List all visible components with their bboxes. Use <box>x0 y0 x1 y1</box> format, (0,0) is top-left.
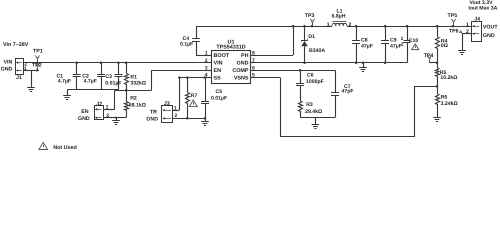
svg-text:VSNS: VSNS <box>234 76 249 82</box>
svg-text:3.24kΩ: 3.24kΩ <box>441 101 458 107</box>
svg-text:EN: EN <box>214 68 222 74</box>
svg-text:C5: C5 <box>216 89 223 95</box>
svg-text:BOOT: BOOT <box>214 53 230 59</box>
svg-text:1: 1 <box>24 66 27 72</box>
svg-text:C3: C3 <box>105 74 112 80</box>
svg-text:EN: EN <box>81 109 89 115</box>
svg-text:GND: GND <box>78 116 90 122</box>
svg-text:J1: J1 <box>16 75 22 81</box>
svg-text:5: 5 <box>252 73 255 79</box>
svg-text:47µF: 47µF <box>361 43 373 49</box>
svg-text:GND: GND <box>237 61 249 67</box>
svg-text:SS: SS <box>214 76 222 82</box>
svg-text:TP4: TP4 <box>424 53 434 59</box>
svg-text:4.7µF: 4.7µF <box>58 78 71 84</box>
svg-text:R6: R6 <box>441 95 448 101</box>
svg-text:TPS54331D: TPS54331D <box>216 45 245 51</box>
svg-text:TP5: TP5 <box>448 13 458 19</box>
svg-text:VOUT: VOUT <box>483 24 498 30</box>
svg-text:6.8µH: 6.8µH <box>332 13 346 19</box>
svg-text:D1: D1 <box>308 34 315 40</box>
svg-text:R3: R3 <box>306 102 313 108</box>
svg-text:VIN: VIN <box>4 59 13 65</box>
svg-text:1: 1 <box>327 22 330 28</box>
svg-text:TP3: TP3 <box>305 13 315 19</box>
svg-text:4.7µF: 4.7µF <box>84 78 97 84</box>
svg-text:4: 4 <box>205 73 208 79</box>
svg-text:Iout Max 3A: Iout Max 3A <box>468 5 497 11</box>
svg-text:332kΩ: 332kΩ <box>130 81 146 87</box>
svg-text:0.01µF: 0.01µF <box>211 96 227 102</box>
svg-text:TP1: TP1 <box>33 49 43 55</box>
svg-text:TP6: TP6 <box>449 29 459 35</box>
svg-text:0.01µF: 0.01µF <box>105 80 121 86</box>
svg-text:VIN: VIN <box>214 61 223 67</box>
svg-text:2: 2 <box>401 42 404 48</box>
svg-text:C10: C10 <box>409 38 419 44</box>
svg-text:COMP: COMP <box>232 68 249 74</box>
svg-text:1: 1 <box>466 22 469 28</box>
svg-text:GND: GND <box>483 33 495 39</box>
svg-text:1000pF: 1000pF <box>306 79 324 85</box>
svg-text:J2: J2 <box>96 101 102 107</box>
svg-text:8: 8 <box>252 50 255 56</box>
svg-text:2: 2 <box>349 22 352 28</box>
svg-text:Vin 7–28V: Vin 7–28V <box>3 42 29 48</box>
svg-text:68.1kΩ: 68.1kΩ <box>129 103 146 109</box>
svg-text:J3: J3 <box>164 101 170 107</box>
svg-text:C6: C6 <box>307 73 314 79</box>
svg-text:TP2: TP2 <box>32 63 42 69</box>
svg-text:6: 6 <box>252 65 255 71</box>
svg-text:PH: PH <box>241 53 249 59</box>
svg-text:R7: R7 <box>191 93 198 99</box>
svg-text:R2: R2 <box>130 95 137 101</box>
svg-text:B340A: B340A <box>309 48 325 54</box>
svg-text:GND: GND <box>1 66 13 72</box>
svg-text:TR: TR <box>150 109 157 115</box>
svg-text:47pF: 47pF <box>342 89 354 95</box>
svg-text:2: 2 <box>205 58 208 64</box>
svg-text:10.2kΩ: 10.2kΩ <box>440 75 457 81</box>
svg-text:GND: GND <box>146 116 158 122</box>
svg-text:0Ω: 0Ω <box>441 43 448 49</box>
svg-text:1: 1 <box>401 36 404 42</box>
svg-text:2: 2 <box>466 29 469 35</box>
svg-text:0.1µF: 0.1µF <box>180 41 193 47</box>
svg-text:3: 3 <box>205 65 208 71</box>
svg-text:Not Used: Not Used <box>53 145 77 151</box>
svg-text:29.4kΩ: 29.4kΩ <box>305 109 322 115</box>
svg-text:J4: J4 <box>474 17 480 23</box>
svg-text:7: 7 <box>252 58 255 64</box>
